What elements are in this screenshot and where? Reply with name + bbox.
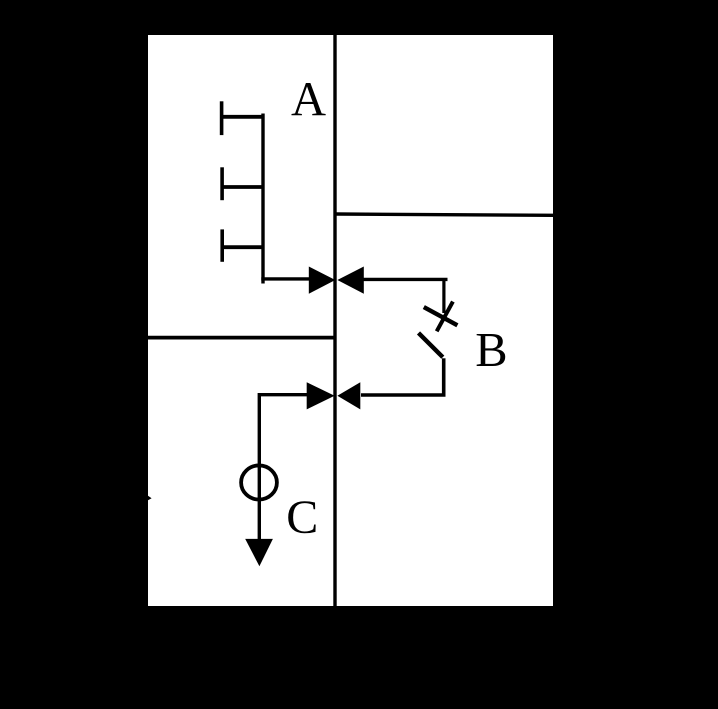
lower bowtie valve right triangle — [337, 382, 360, 409]
svg-text:A: A — [291, 73, 326, 126]
load C meter circle — [241, 465, 277, 499]
svg-text:B: B — [475, 324, 507, 377]
wire upper-right horizontal from bus to panel edge — [335, 214, 553, 215]
T-stub 3 lead — [221, 245, 263, 249]
lower bowtie valve left triangle — [307, 382, 335, 409]
switch B cross stroke 2 — [424, 307, 458, 325]
load C branch line (vertical) — [258, 393, 261, 545]
T-stub 3 crossbar — [220, 229, 224, 261]
switch B cross stroke 1 — [437, 302, 453, 332]
stray tick on left panel edge — [148, 496, 152, 501]
T-stub 2 lead — [221, 185, 263, 189]
wire switch B top drop (vertical) — [442, 279, 445, 313]
wire from feeder A to upper valve — [261, 277, 311, 280]
T-stub 1 lead — [220, 115, 262, 119]
upper bowtie valve right triangle — [337, 267, 363, 294]
feeder line A (vertical) — [261, 114, 264, 284]
wire from switch B to lower valve (horizontal) — [361, 393, 446, 396]
T-stub 2 crossbar — [220, 167, 224, 200]
drawing panel background — [148, 35, 553, 606]
wire switch B bottom riser (vertical) — [442, 358, 446, 395]
bus line (vertical) — [333, 35, 336, 606]
svg-text:C: C — [286, 491, 318, 544]
T-stub 1 crossbar — [220, 101, 224, 135]
load C arrowhead — [245, 539, 273, 566]
wire from load C branch to lower valve — [259, 393, 308, 396]
upper bowtie valve left triangle — [309, 267, 336, 294]
switch B blade (open) — [419, 333, 443, 357]
wire mid-left horizontal from panel edge to bus — [148, 336, 337, 340]
wire from upper valve to switch B (horizontal) — [363, 278, 448, 281]
